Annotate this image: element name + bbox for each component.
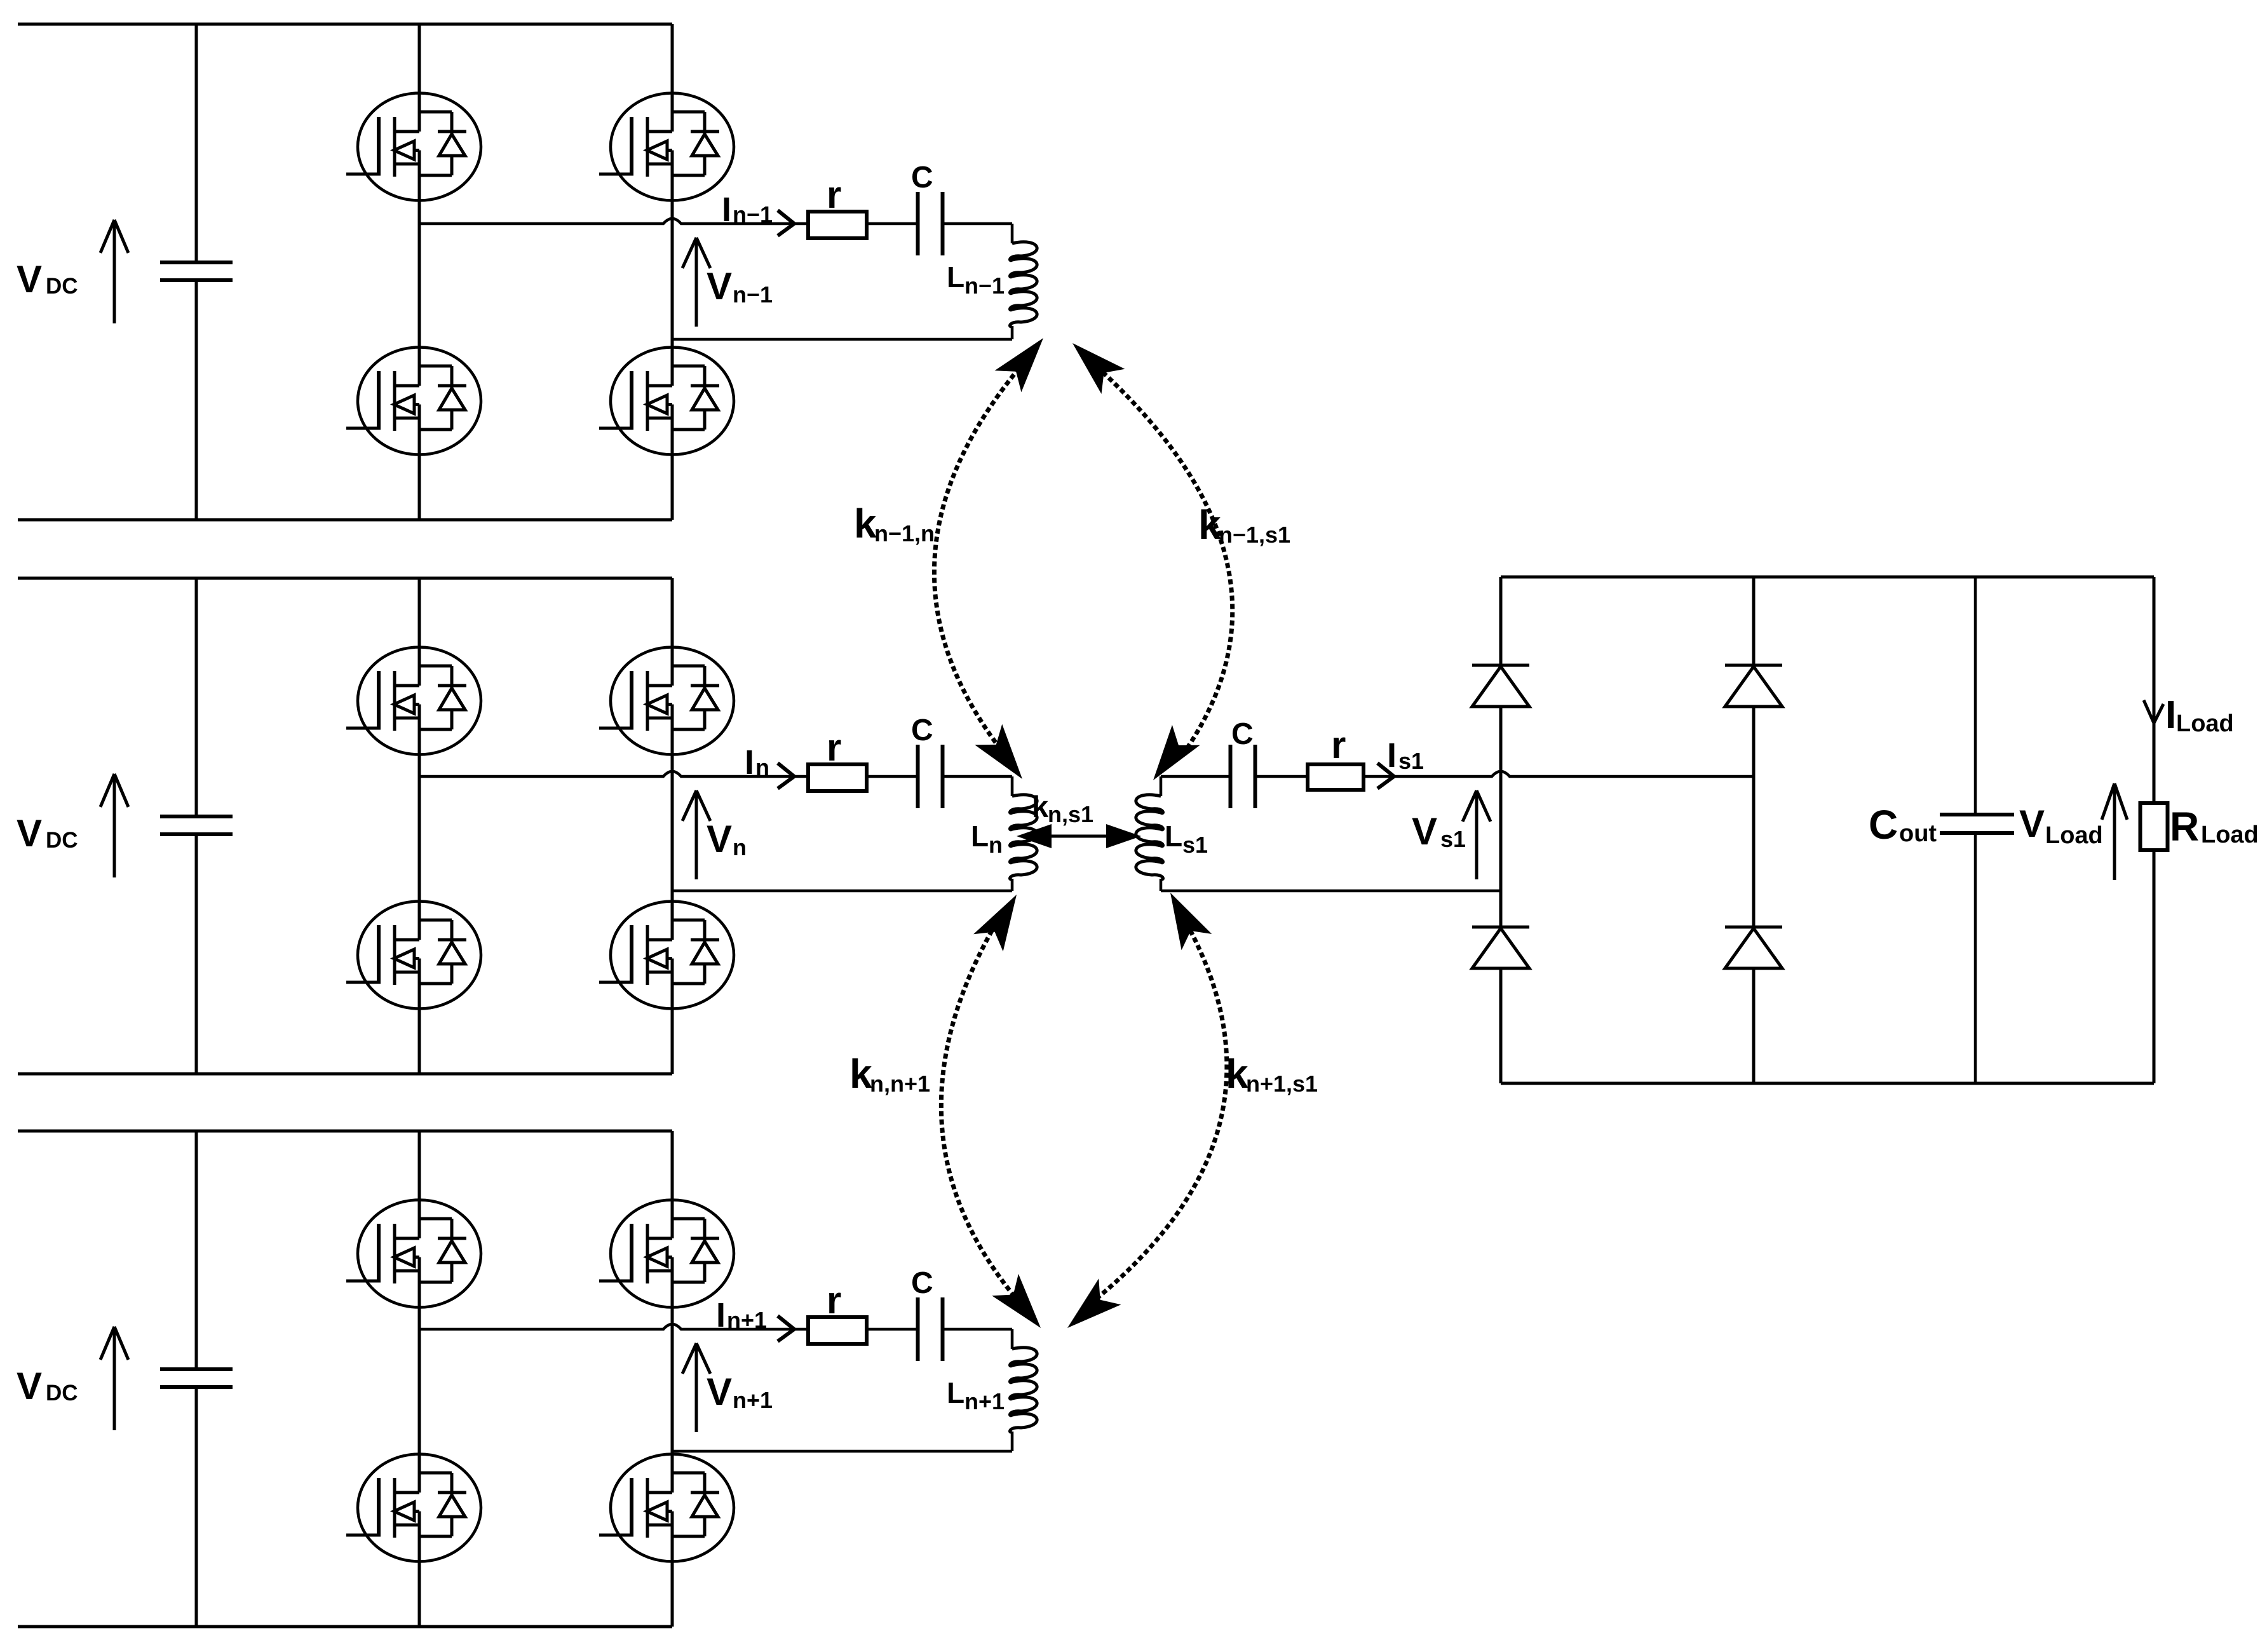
inverter n+1: top rail wire <box>18 1130 672 1133</box>
capacitor C (secondary) <box>1229 745 1233 808</box>
wire: inverter n return from leg to coil <box>672 890 1012 893</box>
arrow V_Load <box>2113 783 2116 880</box>
wire: C to coil (inverter n) <box>944 775 1012 778</box>
resistor r (inverter n-1) <box>808 212 867 238</box>
inverter n-1: bottom rail wire <box>18 518 672 522</box>
wire: inverter n-1 output with crossover hop to resistor r <box>419 219 808 224</box>
inductor L_n+1 coil <box>1010 1348 1038 1432</box>
inverter n: left bridge leg wire <box>418 578 421 686</box>
wire: coil bottom to return (inverter n) <box>1011 879 1014 891</box>
inverter n+1: left bridge leg wire <box>418 1131 421 1238</box>
wire: r to C (inverter n+1) <box>867 1328 916 1331</box>
rectifier: bottom rail wire <box>1501 1082 2154 1085</box>
wire: C to coil (inverter n+1) <box>944 1328 1012 1331</box>
arrow V_n-1 <box>695 238 698 327</box>
resistor r (inverter n) <box>808 764 867 791</box>
MOSFET Q11 (inverter n+1 right high-side) <box>599 1200 734 1308</box>
inductor L_n coil <box>1010 795 1038 879</box>
MOSFET Q9 (inverter n+1 left high-side) <box>346 1200 481 1308</box>
svg-text:r: r <box>827 173 841 216</box>
svg-text:C: C <box>911 714 933 747</box>
wire: inverter n+1 return from leg to coil <box>672 1450 1012 1453</box>
wire: C to coil (inverter n-1) <box>944 222 1012 226</box>
wire: r to C (inverter n-1) <box>867 222 916 226</box>
inverter n: top rail wire <box>18 577 672 580</box>
inverter n-1: right bridge leg wire <box>671 24 674 132</box>
wire: coil bottom to return (inverter n+1) <box>1011 1432 1014 1451</box>
wire: L_s1 top to capacitor C <box>1160 776 1163 796</box>
svg-text:r: r <box>827 726 841 769</box>
arrow VDC (inverter n) <box>113 774 116 877</box>
svg-text:C: C <box>1231 717 1254 751</box>
current arrowhead I_s1 <box>1377 763 1394 776</box>
resistor R_Load <box>2141 803 2168 850</box>
coupling k_n,n+1 dotted curve <box>941 925 1015 1297</box>
wire: inverter n-1 return from leg to coil <box>672 338 1012 341</box>
inverter n+1: bottom rail wire <box>18 1625 672 1628</box>
capacitor C (inverter n-1) <box>916 192 920 255</box>
svg-text:C: C <box>911 161 933 194</box>
inductor L_n-1 coil <box>1010 242 1038 327</box>
current arrowhead I_n+1 <box>778 1316 794 1329</box>
wire: inverter n+1 output with crossover hop to resistor r <box>419 1324 808 1329</box>
svg-text:C: C <box>911 1266 933 1300</box>
inverter n-1: left bridge leg wire <box>418 24 421 132</box>
svg-text:r: r <box>827 1279 841 1322</box>
arrowhead k_n,n+1 (toward L_n+1) <box>992 1274 1041 1328</box>
inverter n: right bridge leg wire <box>671 578 674 686</box>
wire: r to rectifier with crossover hop <box>1363 771 1754 776</box>
rectifier: top rail wire <box>1501 576 2154 579</box>
arrow V_s1 <box>1475 790 1478 879</box>
wire: coil bottom to return (inverter n-1) <box>1011 326 1014 339</box>
arrowhead k_n-1,n (toward L_n-1) <box>995 338 1044 392</box>
MOSFET Q1 (inverter n-1 left high-side) <box>346 93 481 201</box>
resistor r (inverter n+1) <box>808 1317 867 1344</box>
arrow VDC (inverter n+1) <box>113 1327 116 1430</box>
diode D2 (left leg lower) <box>1472 927 1529 968</box>
inverter n-1: DC-link capacitor <box>195 24 198 262</box>
inverter n-1: top rail wire <box>18 23 672 26</box>
MOSFET Q8 (inverter n right low-side) <box>599 902 734 1009</box>
MOSFET Q5 (inverter n left high-side) <box>346 647 481 755</box>
MOSFET Q4 (inverter n-1 right low-side) <box>599 348 734 455</box>
current arrowhead I_Load <box>2144 700 2154 723</box>
wire: r to C (inverter n) <box>867 775 916 778</box>
current arrowhead I_n <box>778 763 794 776</box>
coupling k_n,s1 double arrow <box>1047 835 1111 838</box>
coupling k_n-1,s1 dotted curve <box>1104 374 1233 748</box>
diode D3 (second leg upper) <box>1725 665 1782 707</box>
inductor L_s1 coil <box>1136 795 1163 879</box>
inverter n: DC-link capacitor <box>195 578 198 816</box>
diode D1 (left leg upper) <box>1472 665 1529 707</box>
arrow V_n <box>695 790 698 879</box>
wire: inverter n output with crossover hop to resistor r <box>419 771 808 776</box>
MOSFET Q7 (inverter n right high-side) <box>599 647 734 755</box>
rectifier: right load branch wire <box>2153 577 2156 803</box>
inverter n: bottom rail wire <box>18 1073 672 1076</box>
capacitor C (inverter n) <box>916 745 920 808</box>
capacitor C_out <box>1974 577 1977 815</box>
MOSFET Q6 (inverter n left low-side) <box>346 902 481 1009</box>
arrowhead k_n-1,s1 (toward L_n-1) <box>1072 343 1125 394</box>
svg-text:r: r <box>1331 724 1346 766</box>
capacitor C (inverter n+1) <box>916 1297 920 1361</box>
inverter n+1: DC-link capacitor <box>195 1131 198 1369</box>
MOSFET Q12 (inverter n+1 right low-side) <box>599 1454 734 1562</box>
coupling k_n-1,n dotted curve <box>934 370 1018 751</box>
rectifier: left leg wire <box>1499 577 1503 665</box>
MOSFET Q2 (inverter n-1 left low-side) <box>346 348 481 455</box>
arrowhead k_n+1,s1 (toward L_s1) <box>1170 893 1212 950</box>
inverter n+1: right bridge leg wire <box>671 1131 674 1238</box>
resistor r (secondary) <box>1308 764 1363 790</box>
coupling k_n+1,s1 dotted curve <box>1098 926 1227 1297</box>
rectifier: second leg wire <box>1752 577 1756 665</box>
current arrowhead I_n-1 <box>778 210 794 224</box>
MOSFET Q10 (inverter n+1 left low-side) <box>346 1454 481 1562</box>
arrowhead k_n,n+1 (toward L_n) <box>973 895 1017 952</box>
arrowhead k_n-1,s1 (toward L_s1) <box>1153 725 1200 780</box>
wire: C to r (secondary) <box>1257 775 1308 778</box>
arrowhead k_n-1,n (toward L_n) <box>975 724 1022 779</box>
arrowhead k_n+1,s1 (toward L_n+1) <box>1067 1278 1121 1328</box>
wire: L_s1 bottom to rectifier <box>1160 879 1163 891</box>
MOSFET Q3 (inverter n-1 right high-side) <box>599 93 734 201</box>
arrow V_n+1 <box>695 1343 698 1432</box>
arrow VDC (inverter n-1) <box>113 220 116 323</box>
diode D4 (second leg lower) <box>1725 927 1782 968</box>
